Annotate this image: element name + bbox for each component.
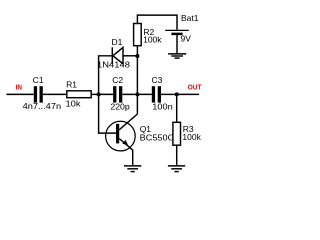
wire emitter to ground bbox=[132, 150, 134, 166]
resistor R3 bbox=[173, 122, 181, 145]
capacitor C1 bbox=[34, 86, 43, 102]
resistor R1 bbox=[67, 91, 91, 98]
svg-text:100k: 100k bbox=[182, 132, 201, 142]
wire C3 to node C bbox=[161, 93, 177, 95]
svg-text:9V: 9V bbox=[181, 34, 192, 44]
svg-text:1N4148: 1N4148 bbox=[97, 60, 130, 70]
transistor Q1 bbox=[106, 114, 138, 151]
svg-text:4n7...47n: 4n7...47n bbox=[23, 101, 62, 111]
svg-text:OUT: OUT bbox=[188, 82, 202, 91]
svg-text:10k: 10k bbox=[66, 99, 82, 109]
svg-text:220p: 220p bbox=[110, 101, 130, 111]
svg-text:BC550C: BC550C bbox=[140, 132, 175, 142]
wire R2 top to battery bbox=[137, 15, 177, 30]
battery Bat1 bbox=[165, 30, 189, 34]
wire collector to node B bbox=[136, 94, 138, 114]
wire node C to OUT bbox=[177, 93, 199, 95]
svg-text:R1: R1 bbox=[66, 80, 77, 90]
junction D1 anode / R2 bbox=[135, 54, 139, 58]
svg-text:C2: C2 bbox=[112, 75, 123, 85]
svg-text:D1: D1 bbox=[112, 37, 123, 47]
ground (Q1 emitter) bbox=[124, 166, 141, 172]
wire R1 to C2 bbox=[91, 93, 113, 95]
svg-text:Bat1: Bat1 bbox=[181, 13, 199, 23]
wire node A down to Q1 base bbox=[99, 94, 116, 133]
resistor R2 bbox=[134, 24, 142, 46]
svg-text:C3: C3 bbox=[152, 75, 163, 85]
wire C2 to C3 bbox=[122, 93, 152, 95]
node A junction bbox=[97, 92, 101, 96]
svg-text:100n: 100n bbox=[152, 101, 173, 111]
wire node A up to D1 bbox=[99, 56, 112, 95]
svg-text:C1: C1 bbox=[33, 75, 44, 85]
ground (battery) bbox=[168, 54, 186, 58]
node C junction bbox=[175, 92, 179, 96]
svg-text:100k: 100k bbox=[143, 35, 162, 45]
wire C1 to R1 bbox=[43, 93, 67, 95]
wire IN to C1 bbox=[6, 93, 33, 95]
capacitor C2 bbox=[113, 86, 122, 102]
diode D1 bbox=[112, 47, 137, 64]
wire battery to ground bbox=[176, 35, 178, 53]
wire R2 to D1 junction to node B bbox=[136, 46, 138, 95]
node B junction bbox=[135, 92, 139, 96]
wire R3 to ground bbox=[176, 145, 178, 166]
wire node C down to R3 bbox=[176, 94, 178, 122]
capacitor C3 bbox=[152, 86, 161, 102]
svg-text:IN: IN bbox=[16, 82, 22, 91]
ground (R3) bbox=[168, 166, 185, 172]
